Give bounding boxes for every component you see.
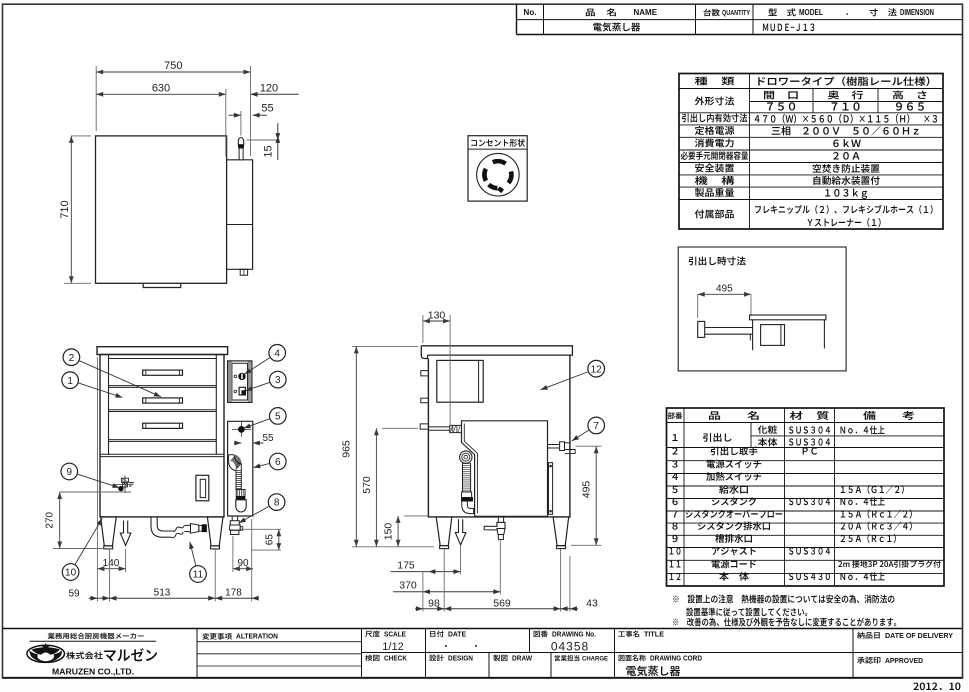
svg-text:3: 3 [275, 375, 281, 386]
side view: right rail [549, 463, 553, 515]
svg-text:ＭＵＤＥ−Ｊ１３: ＭＵＤＥ−Ｊ１３ [762, 19, 816, 34]
svg-text:※ 改善の為、仕様及び外観を予告なしに変更することがあります: ※ 改善の為、仕様及び外観を予告なしに変更することがあります。 [672, 615, 901, 629]
dim 270 [60, 491, 131, 493]
svg-text:4: 4 [274, 348, 280, 359]
svg-text:90: 90 [237, 558, 249, 569]
svg-text:．: ． [845, 6, 854, 18]
svg-text:6: 6 [275, 457, 281, 468]
callout 11 [190, 566, 207, 583]
svg-text:DRAWING CORD: DRAWING CORD [650, 655, 702, 662]
detail drawer rail [705, 327, 753, 329]
svg-text:178: 178 [225, 588, 242, 599]
svg-text:外形寸法: 外形寸法 [695, 94, 736, 108]
svg-text:5: 5 [275, 412, 281, 423]
top view: rear strip fitting [240, 269, 247, 275]
svg-text:設計: 設計 [429, 654, 444, 664]
side view: top plate [421, 346, 572, 359]
front view: control box [228, 361, 252, 403]
svg-text:製図: 製図 [493, 654, 508, 664]
svg-text:04358: 04358 [551, 640, 589, 654]
svg-text:品 名: 品 名 [708, 408, 760, 422]
svg-text:ドロワータイプ（樹脂レール仕様）: ドロワータイプ（樹脂レール仕様） [755, 73, 937, 88]
svg-text:DESIGN: DESIGN [448, 655, 473, 662]
svg-text:15: 15 [263, 145, 275, 157]
svg-text:NAME: NAME [634, 8, 658, 17]
maruzen logo mark [27, 645, 65, 662]
control box switch (3) [239, 387, 245, 395]
svg-text:710: 710 [59, 200, 71, 218]
svg-text:MARUZEN CO.,LTD.: MARUZEN CO.,LTD. [52, 668, 134, 677]
svg-text:DATE: DATE [448, 631, 466, 638]
svg-text:電気蒸し器: 電気蒸し器 [626, 663, 681, 679]
svg-text:ＳＵＳ３０４: ＳＵＳ３０４ [788, 494, 832, 508]
svg-text:APPROVED: APPROVED [885, 656, 924, 665]
drain valve fitting (8) [231, 516, 233, 521]
svg-text:１０: １０ [668, 543, 682, 557]
svg-text:株式会社: 株式会社 [66, 649, 103, 661]
svg-text:12: 12 [591, 364, 603, 375]
svg-text:工事名: 工事名 [618, 630, 640, 640]
outlet box [468, 136, 527, 201]
dim 570 [382, 427, 418, 429]
control box knob (4) [239, 373, 245, 379]
svg-text:フレキニップル（２）、フレキシブルホース（１）: フレキニップル（２）、フレキシブルホース（１） [754, 202, 938, 216]
callout 10 [62, 564, 79, 581]
dim 750 [95, 66, 97, 131]
top view: cord inlet fitting [238, 138, 243, 145]
front view: right side panel [228, 421, 253, 516]
dim 120 [251, 93, 299, 95]
svg-text:495: 495 [581, 481, 593, 499]
side view: left tabs [421, 371, 429, 376]
callout 8 [268, 494, 285, 511]
svg-text:付属部品: 付属部品 [695, 207, 735, 221]
outlet slot bottom [489, 185, 498, 189]
top view: right strip [227, 160, 253, 269]
header table [516, 4, 518, 34]
svg-text:・: ・ [472, 641, 480, 652]
svg-text:150: 150 [383, 523, 395, 541]
svg-text:アジャスト: アジャスト [711, 543, 757, 557]
front view: lower panel slot [196, 475, 209, 501]
dim 630 [225, 89, 227, 156]
svg-text:65: 65 [265, 534, 276, 546]
dim 175 [460, 546, 462, 575]
svg-text:TITLE: TITLE [644, 631, 664, 638]
side view: legs [436, 517, 452, 546]
outlet slot top [493, 161, 506, 163]
callout 6 [270, 453, 287, 470]
svg-text:175: 175 [397, 559, 415, 571]
svg-text:寸 法: 寸 法 [869, 6, 898, 18]
front view: left legs [101, 517, 117, 546]
callout 9 [61, 463, 78, 480]
svg-text:DRAW: DRAW [512, 655, 532, 662]
dim 965 [352, 345, 418, 347]
svg-text:部番: 部番 [668, 411, 683, 422]
side view: hose elbow [462, 501, 474, 513]
front view: drawer handles [143, 370, 183, 375]
svg-text:種 類: 種 類 [695, 74, 736, 88]
detail drawer box [761, 325, 785, 346]
svg-text:引出し取手: 引出し取手 [710, 444, 758, 458]
svg-text:２５Ａ（Ｒｃ１）: ２５Ａ（Ｒｃ１） [839, 531, 901, 545]
svg-text:1/12: 1/12 [382, 641, 403, 653]
svg-text:630: 630 [152, 82, 170, 94]
svg-text:9: 9 [67, 467, 73, 478]
svg-text:43: 43 [586, 597, 598, 609]
svg-text:品 名: 品 名 [585, 6, 617, 18]
svg-text:本体: 本体 [758, 435, 778, 448]
svg-text:台数: 台数 [703, 7, 720, 18]
title block frame [3, 628, 963, 630]
svg-text:引出し時寸法: 引出し時寸法 [688, 254, 746, 268]
svg-text:QUANTITY: QUANTITY [722, 10, 750, 17]
drawer detail box [678, 247, 846, 371]
svg-text:DRAWING No.: DRAWING No. [552, 631, 596, 638]
svg-text:電気蒸し器: 電気蒸し器 [593, 20, 641, 34]
hose end connector [236, 490, 245, 497]
dim 130 [422, 315, 424, 343]
dim 15 (top view) [247, 139, 280, 141]
svg-text:承認印: 承認印 [857, 655, 881, 666]
svg-text:59: 59 [68, 589, 80, 600]
svg-text:化粧: 化粧 [758, 423, 778, 436]
side view: inlet pipe and valve [428, 426, 449, 428]
svg-text:検図: 検図 [365, 654, 380, 664]
svg-text:備 考: 備 考 [863, 408, 915, 422]
callout 2 [63, 349, 80, 366]
side view: corrugated hose [462, 463, 464, 492]
dim 55 (front) [234, 442, 241, 444]
svg-text:Ｙストレーナー（１）: Ｙストレーナー（１） [806, 215, 886, 229]
svg-text:２: ２ [670, 444, 680, 458]
svg-text:55: 55 [262, 433, 274, 444]
outlet slot left [484, 169, 485, 181]
dim 370 [499, 541, 501, 595]
front view: top plate [97, 347, 228, 355]
svg-text:ＳＵＳ４３０: ＳＵＳ４３０ [788, 569, 832, 583]
outlet slot right [509, 171, 512, 183]
svg-text:120: 120 [260, 82, 278, 94]
svg-text:製品重量: 製品重量 [695, 185, 736, 199]
svg-text:965: 965 [341, 440, 353, 458]
svg-text:10: 10 [65, 568, 77, 579]
callout 4 [269, 345, 286, 362]
front view: body [100, 355, 224, 517]
svg-text:図番: 図番 [533, 630, 548, 640]
svg-text:750: 750 [164, 60, 182, 72]
detail 495 dim [698, 293, 751, 295]
alteration cell lines [197, 641, 362, 643]
svg-text:Ｎｏ．４仕上: Ｎｏ．４仕上 [839, 569, 885, 583]
callout 1 [62, 372, 79, 389]
svg-text:CHECK: CHECK [384, 655, 407, 662]
svg-text:570: 570 [361, 476, 373, 494]
svg-text:引出し: 引出し [703, 430, 733, 444]
svg-text:ALTERATION: ALTERATION [236, 634, 278, 641]
top view: main body outline [96, 136, 227, 283]
svg-text:１: １ [670, 430, 680, 444]
svg-text:SCALE: SCALE [384, 631, 406, 638]
svg-text:CHARGE: CHARGE [582, 655, 609, 662]
dim 710 [71, 135, 91, 137]
svg-text:マルゼン: マルゼン [103, 645, 158, 666]
outlet circle [477, 153, 520, 196]
svg-text:材 質: 材 質 [790, 408, 831, 422]
side bottom dims 98/569/43 [422, 572, 424, 612]
dim 495 [576, 445, 602, 447]
front view: flexible hose (6) [229, 455, 242, 490]
svg-text:※ 設置上の注意 熱機器の設置については安全の為、消防法の: ※ 設置上の注意 熱機器の設置については安全の為、消防法の [672, 591, 895, 605]
svg-text:１０３ｋｇ: １０３ｋｇ [823, 185, 869, 200]
svg-text:DIMENSION: DIMENSION [900, 8, 934, 17]
dim 150 [404, 515, 428, 517]
dim 55 (top view) [240, 111, 242, 136]
svg-text:・: ・ [442, 641, 450, 652]
svg-text:1: 1 [67, 376, 73, 387]
front view: overflow fitting (9) [113, 484, 134, 486]
svg-text:MODEL: MODEL [799, 8, 823, 17]
svg-text:98: 98 [428, 597, 440, 609]
svg-text:コンセント形状: コンセント形状 [470, 137, 525, 149]
svg-text:370: 370 [399, 579, 417, 591]
front view: right leg [207, 517, 223, 546]
svg-text:130: 130 [428, 309, 446, 321]
front view: U drain pipe with plug [151, 517, 171, 537]
svg-text:消費電力: 消費電力 [695, 136, 735, 150]
dim 90 [232, 536, 234, 572]
svg-text:140: 140 [103, 558, 120, 569]
svg-text:11: 11 [193, 570, 204, 581]
callout 5 [270, 408, 287, 425]
svg-text:ＳＵＳ３０４: ＳＵＳ３０４ [788, 543, 832, 557]
svg-text:営業担当: 営業担当 [554, 653, 580, 663]
dim 65 [241, 528, 282, 530]
side view: hollow arrow [455, 519, 466, 545]
svg-text:尺度: 尺度 [365, 630, 380, 640]
svg-text:ＰＣ: ＰＣ [801, 444, 819, 458]
side view: control box [437, 360, 483, 402]
svg-text:型 式: 型 式 [768, 6, 797, 18]
top view: bottom notch [143, 283, 181, 287]
svg-text:本 体: 本 体 [719, 569, 750, 583]
svg-text:55: 55 [261, 102, 273, 114]
water inlet fitting (5) [240, 422, 242, 437]
svg-text:日付: 日付 [429, 630, 444, 640]
parts table [667, 408, 945, 586]
side view: body [428, 355, 570, 517]
svg-text:業務用総合厨房機器メーカー: 業務用総合厨房機器メーカー [48, 631, 145, 641]
side view: bottom valve [497, 517, 499, 522]
callout 3 [270, 371, 287, 388]
svg-text:7: 7 [593, 421, 599, 432]
svg-text:納品日: 納品日 [857, 630, 881, 641]
svg-text:変更事項: 変更事項 [202, 632, 232, 642]
svg-text:2: 2 [69, 353, 75, 364]
svg-text:１２: １２ [668, 569, 682, 583]
svg-text:270: 270 [45, 511, 56, 528]
spec table [679, 74, 943, 230]
detail top plate [750, 315, 826, 320]
dim 140 [125, 549, 127, 572]
svg-text:569: 569 [493, 597, 511, 609]
svg-text:513: 513 [154, 588, 171, 599]
svg-text:8: 8 [274, 498, 280, 509]
front view: drawer lines [109, 358, 217, 360]
svg-text:No.: No. [524, 8, 537, 17]
front view: drain hollow arrow [120, 521, 131, 546]
svg-text:495: 495 [716, 284, 733, 295]
detail body lines [752, 320, 754, 350]
side view: cistern tank [462, 421, 548, 517]
svg-text:DATE OF DELIVERY: DATE OF DELIVERY [885, 631, 953, 640]
callout 7 [588, 417, 605, 434]
side view: coil inlet [460, 451, 472, 463]
svg-text:Ｎｏ．４仕上: Ｎｏ．４仕上 [839, 422, 885, 436]
callout 12 [588, 360, 605, 377]
side view: overflow fitting (7) [548, 444, 560, 446]
front bottom dims 59/513/178 [96, 357, 98, 602]
svg-text:2012．10: 2012．10 [913, 678, 961, 692]
